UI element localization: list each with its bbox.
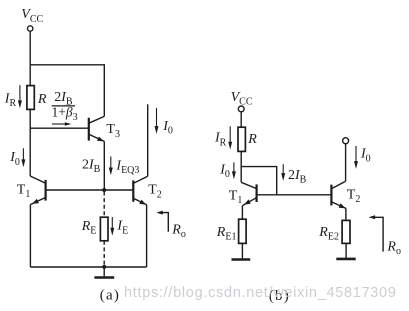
svg-text:RE: RE [81,219,97,237]
svg-text:IE: IE [116,219,128,237]
svg-text:IR: IR [214,131,227,149]
svg-text:IEQ3: IEQ3 [115,158,139,176]
svg-text:T2: T2 [148,183,162,201]
svg-text:2IB: 2IB [288,168,307,186]
svg-text:VCC: VCC [231,90,253,108]
svg-text:IR: IR [4,91,17,109]
svg-text:T1: T1 [17,182,31,200]
svg-text:R: R [247,132,257,147]
svg-text:RE2: RE2 [318,225,339,243]
svg-text:RE1: RE1 [216,225,237,243]
svg-text:T2: T2 [347,187,361,205]
svg-text:I0: I0 [219,162,230,180]
svg-text:T3: T3 [106,122,120,140]
svg-text:1+β3: 1+β3 [52,104,78,123]
svg-text:(a): (a) [100,287,120,303]
svg-text:I0: I0 [9,150,20,168]
svg-text:Ro: Ro [171,223,186,241]
svg-text:T1: T1 [229,189,243,207]
svg-text:https://blog.csdn.net/weixin_4: https://blog.csdn.net/weixin_45817309 [124,285,397,301]
svg-text:I0: I0 [360,147,371,165]
svg-text:R: R [37,92,47,107]
svg-text:VCC: VCC [21,7,43,25]
svg-text:I0: I0 [162,119,173,137]
svg-text:Ro: Ro [386,240,401,258]
svg-text:2IB: 2IB [82,157,101,175]
